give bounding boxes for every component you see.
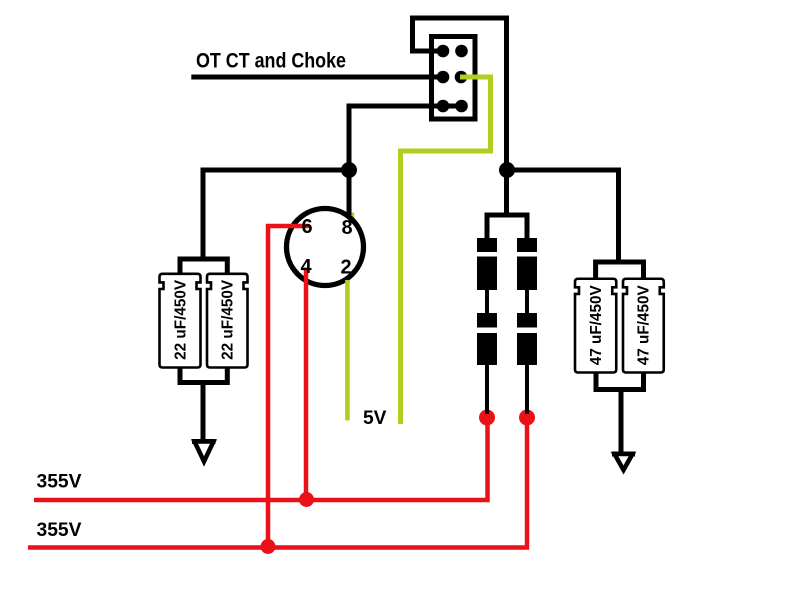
wire: pin-8 green stub behind socket bbox=[350, 213, 354, 219]
wire: node A to left cap bank bbox=[203, 170, 349, 259]
wire: left cap bank top bar bbox=[180, 257, 227, 275]
node A junction bbox=[341, 162, 357, 178]
node: red dot right rectifier leg bbox=[519, 410, 535, 426]
svg-text:8: 8 bbox=[341, 217, 352, 239]
wire: green 5V loop from J1 pin 2 bbox=[401, 77, 491, 424]
red bus 355V #2 bbox=[28, 418, 527, 548]
capacitor C3 47uF/450V bbox=[575, 279, 616, 373]
wire: node A down to socket V1 bbox=[347, 170, 352, 215]
svg-text:22 uF/450V: 22 uF/450V bbox=[172, 279, 189, 360]
tube socket V1 bbox=[287, 209, 364, 286]
wire: left cap bank bottom bar bbox=[180, 368, 227, 442]
svg-text:22 uF/450V: 22 uF/450V bbox=[220, 279, 237, 360]
node: red dot left rectifier leg bbox=[479, 410, 495, 426]
junction dot red bus1/pin4 bbox=[299, 492, 314, 507]
capacitor C2 22uF/450V bbox=[207, 274, 248, 368]
J1 pin row3 right bbox=[455, 100, 468, 113]
svg-text:6: 6 bbox=[301, 216, 312, 238]
wire: right cap bank top bar bbox=[596, 260, 644, 280]
wire: rectifier stack top bar bbox=[485, 213, 528, 240]
J1 pin row2 right bbox=[455, 71, 468, 84]
J1 pin row1 left bbox=[437, 45, 450, 58]
wire: red from socket pin 6 down to 355V bus 2 bbox=[268, 226, 309, 548]
wire: node B right to right cap bank bbox=[507, 170, 619, 262]
svg-text:355V: 355V bbox=[37, 472, 82, 493]
wire: red from socket pin 4 down to 355V bus 1 bbox=[304, 268, 309, 501]
J1 pin row1 right bbox=[455, 45, 468, 58]
connector J1 body bbox=[432, 37, 476, 120]
red bus 355V #1 bbox=[34, 418, 488, 501]
wire: J1 row1 loop to node B bbox=[413, 18, 507, 170]
J1 pin row2 left bbox=[437, 71, 450, 84]
capacitor C1 22uF/450V bbox=[160, 274, 201, 368]
ground G1 bbox=[192, 442, 216, 462]
J1 pin row3 link bbox=[443, 104, 462, 108]
node B junction bbox=[499, 162, 515, 178]
J1 pin row3 left bbox=[437, 100, 450, 113]
junction dot red bus2/pin6 bbox=[261, 539, 276, 554]
capacitor C4 47uF/450V bbox=[623, 279, 664, 373]
wire: node B down to rectifier stack bar bbox=[504, 170, 509, 215]
svg-text:355V: 355V bbox=[37, 520, 82, 541]
capacitor stack C5+C6 (series, left leg) bbox=[477, 238, 497, 414]
wire: OT CT and Choke lead to J1 row2 bbox=[191, 75, 443, 80]
wire: green from socket pin 2 to 5V bbox=[345, 280, 350, 421]
svg-text:5V: 5V bbox=[363, 407, 387, 429]
svg-text:47 uF/450V: 47 uF/450V bbox=[588, 285, 605, 366]
svg-text:47 uF/450V: 47 uF/450V bbox=[636, 285, 653, 366]
svg-text:OT CT and Choke: OT CT and Choke bbox=[196, 50, 346, 73]
ground G2 bbox=[612, 454, 635, 470]
capacitor stack C7+C8 (series, right leg) bbox=[517, 238, 537, 414]
wire: J1 row3 lead down to node A bbox=[349, 106, 462, 170]
svg-text:2: 2 bbox=[340, 257, 351, 279]
wire: right cap bank bottom bar bbox=[596, 373, 644, 455]
svg-text:4: 4 bbox=[300, 256, 312, 278]
